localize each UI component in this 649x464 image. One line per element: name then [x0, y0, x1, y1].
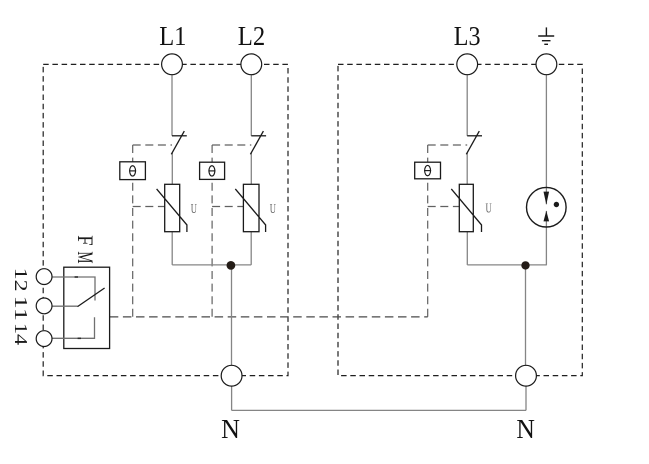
varistor RV2: [235, 184, 265, 232]
gas discharge tube: [527, 187, 567, 227]
svg-text:M: M: [73, 251, 97, 263]
FM remote contact box: [64, 267, 110, 348]
thermal sensor box θ1: [120, 162, 146, 180]
svg-text:12: 12: [11, 268, 31, 292]
terminal 11: [36, 298, 52, 314]
thermal sensor box θ2: [200, 162, 225, 179]
svg-text:L2: L2: [238, 21, 265, 51]
dashed signal link FM to modules: [110, 316, 428, 318]
svg-text:N: N: [516, 414, 535, 444]
junction dot left: [227, 261, 236, 270]
ground symbol: [538, 27, 554, 44]
FM contact 12 arm: [52, 277, 95, 301]
wire L3 drop: [466, 75, 468, 265]
label FM (rotated): [73, 235, 97, 263]
wire PE drop through gas tube: [545, 75, 547, 265]
svg-text:U: U: [191, 202, 197, 217]
svg-text:11: 11: [11, 296, 31, 322]
svg-text:F: F: [73, 235, 97, 245]
terminal L3: [457, 54, 478, 75]
SPD enclosure box left (dashed): [43, 64, 288, 375]
terminal L1: [162, 54, 183, 75]
disconnector switch 2: [250, 131, 266, 154]
disconnector switch 1: [171, 131, 187, 154]
FM contact 14 arm: [52, 317, 94, 338]
inner thermal-module dashed frame 2: [212, 145, 251, 317]
terminal L2: [241, 54, 262, 75]
terminal PE: [536, 54, 557, 75]
SPD enclosure box right (dashed): [338, 64, 582, 375]
inner thermal-module dashed frame 3: [428, 145, 468, 317]
junction dot right: [521, 261, 529, 269]
svg-text:N: N: [221, 414, 240, 444]
FM contact 11 arm: [52, 305, 77, 307]
FM contact blade: [78, 288, 105, 307]
thermal sensor box θ3: [415, 162, 441, 179]
wire varistor bus to N left: [172, 265, 251, 365]
wire right bus to N: [467, 265, 547, 365]
svg-text:L1: L1: [159, 21, 186, 51]
svg-text:14: 14: [11, 323, 31, 345]
varistor RV1: [157, 184, 187, 232]
FM tick marks: [75, 276, 78, 278]
svg-text:U: U: [270, 202, 276, 217]
terminal 12: [36, 269, 52, 285]
wire N bottom bus: [232, 386, 526, 410]
wire L2 drop: [250, 75, 252, 265]
varistor RV3: [451, 184, 481, 232]
terminal 14: [36, 331, 52, 347]
terminal N right: [516, 365, 537, 386]
wire L1 drop: [171, 75, 173, 265]
svg-text:U: U: [486, 202, 492, 217]
disconnector switch 3: [466, 131, 482, 154]
terminal N left: [221, 365, 242, 386]
svg-text:L3: L3: [454, 21, 481, 51]
inner thermal-module dashed frame 1: [133, 145, 172, 317]
